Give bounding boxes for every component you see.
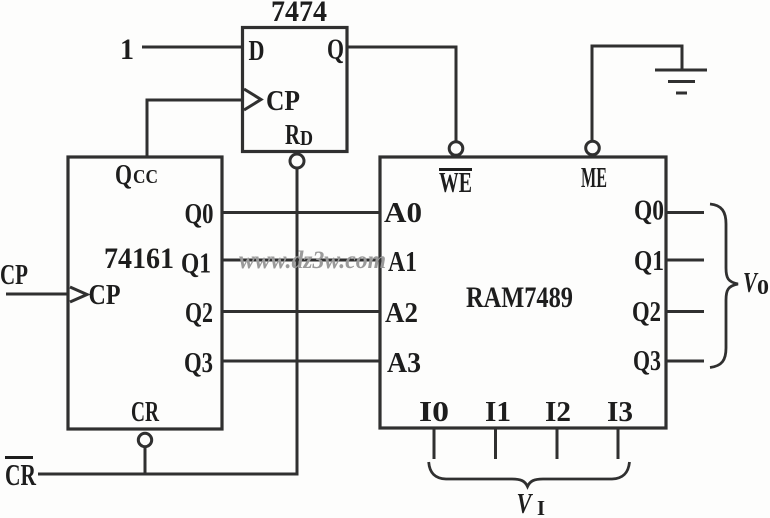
svg-text:A2: A2 xyxy=(385,298,418,329)
active-low bubble on CR xyxy=(138,433,151,446)
RAM U3 7489 body xyxy=(380,157,666,428)
svg-text:Q2: Q2 xyxy=(185,298,213,329)
active-low bubble on WE xyxy=(449,142,463,156)
svg-text:www.dz3w.com: www.dz3w.com xyxy=(239,247,386,274)
wire Q2 to A2 xyxy=(222,310,380,313)
svg-text:Q: Q xyxy=(327,35,344,66)
svg-text:I3: I3 xyxy=(607,397,633,428)
input brace VI xyxy=(429,462,630,487)
wire: Q1 output stub xyxy=(666,259,704,262)
svg-text:V: V xyxy=(517,488,534,518)
svg-text:Q2: Q2 xyxy=(632,297,661,328)
svg-text:ME: ME xyxy=(581,163,607,194)
wire: external CP input xyxy=(6,293,68,296)
active-low bubble on ME xyxy=(586,141,600,155)
wire Q0 to A0 xyxy=(222,211,380,214)
svg-text:Q: Q xyxy=(115,160,132,191)
svg-text:CC: CC xyxy=(133,166,158,188)
svg-text:R: R xyxy=(285,120,301,151)
wire: Q output to WE xyxy=(347,47,456,141)
svg-text:I2: I2 xyxy=(545,397,571,428)
svg-text:CP: CP xyxy=(266,86,300,117)
svg-text:A0: A0 xyxy=(384,198,422,229)
svg-text:7474: 7474 xyxy=(271,0,327,28)
wire: I2 stub xyxy=(556,428,559,459)
svg-text:RAM7489: RAM7489 xyxy=(466,281,573,314)
wire: RD to CR-bar net xyxy=(296,168,299,474)
wire: CR-bar net xyxy=(38,473,299,476)
svg-text:CP: CP xyxy=(0,260,28,291)
svg-text:A3: A3 xyxy=(387,348,421,379)
wire: I0 stub xyxy=(433,428,436,459)
D flip-flop U1 7474 body xyxy=(243,28,348,152)
wire: Q3 output stub xyxy=(666,360,704,363)
svg-text:CR: CR xyxy=(131,397,160,428)
svg-text:CR: CR xyxy=(5,457,36,492)
svg-text:74161: 74161 xyxy=(104,242,174,275)
svg-text:D: D xyxy=(249,36,265,67)
wire: Q0 output stub xyxy=(666,211,704,214)
wire: ME to ground xyxy=(592,46,682,141)
clock triangle of 74161 CP xyxy=(70,287,87,302)
svg-text:Q1: Q1 xyxy=(181,249,211,280)
wire: I3 stub xyxy=(617,428,620,459)
svg-text:Q0: Q0 xyxy=(185,199,214,230)
svg-text:I: I xyxy=(537,496,545,518)
wire: I1 stub xyxy=(494,428,497,459)
svg-text:D: D xyxy=(300,126,313,150)
wire: 1 to D input xyxy=(142,46,242,49)
svg-text:0: 0 xyxy=(757,275,769,299)
CR-bar label overline xyxy=(5,456,33,459)
wire Q1 to A1 xyxy=(222,259,380,262)
svg-text:I1: I1 xyxy=(485,397,511,428)
svg-text:Q3: Q3 xyxy=(633,346,661,377)
svg-text:WE: WE xyxy=(439,168,472,199)
svg-text:I0: I0 xyxy=(419,397,449,428)
svg-text:Q3: Q3 xyxy=(184,348,213,379)
counter U2 74161 body xyxy=(68,157,222,429)
active-low bubble on RD xyxy=(290,154,304,168)
svg-text:A1: A1 xyxy=(388,247,417,278)
svg-text:Q1: Q1 xyxy=(634,246,664,277)
svg-text:Q0: Q0 xyxy=(634,196,664,227)
wire: Q2 output stub xyxy=(666,310,704,313)
WE-bar label overline xyxy=(439,168,472,171)
wire: QCC to 7474 CP xyxy=(147,100,242,157)
svg-text:1: 1 xyxy=(120,33,134,66)
svg-text:CP: CP xyxy=(89,280,121,311)
wire Q3 to A3 xyxy=(222,360,380,363)
clock triangle of 7474 CP xyxy=(244,89,261,110)
ground symbol xyxy=(655,69,707,72)
wire: CR bubble to CR-bar net xyxy=(144,447,147,474)
output brace VO xyxy=(710,204,738,368)
